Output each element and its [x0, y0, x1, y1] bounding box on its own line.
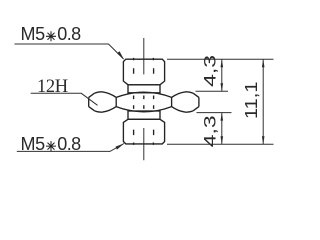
arrow dim down at 143.9 x221.8: [221, 136, 224, 144]
nut N2 bottom body: [123, 119, 164, 144]
arrow dim up at 59.2 x221.8: [221, 59, 224, 67]
hex chamfer arcs middle face: [116, 92, 171, 112]
arrow dim up at 59.2 x263.2: [262, 59, 265, 67]
hex thread ticks bottom: [134, 105, 154, 109]
arrow dim down at 91.3 x221.8: [221, 83, 224, 91]
leader L2 mid 12H: [31, 93, 98, 105]
extension line top: [167, 58, 274, 60]
svg-text:M5: M5: [21, 134, 46, 154]
hex face edge left: [115, 97, 117, 106]
svg-text:0.8: 0.8: [57, 134, 81, 154]
star top: [46, 31, 56, 41]
label M5*0.8 bottom: [21, 134, 82, 154]
svg-text:12H: 12H: [37, 77, 68, 97]
bottom face ticks N2: [134, 143, 154, 145]
arrow dim down at 143.9 x263.2: [262, 136, 265, 144]
star bottom: [46, 141, 56, 151]
extension line hex-bottom: [197, 112, 232, 114]
centerline: [143, 38, 145, 160]
hex thread ticks top: [134, 96, 154, 100]
washer W2 bottom: [128, 111, 160, 119]
svg-text:4,3: 4,3: [200, 55, 219, 87]
thread ticks nut N2: [134, 130, 154, 136]
hex end edge left: [89, 93, 95, 110]
leader L3 bottom M5: [17, 144, 124, 152]
label M5*0.8 top: [21, 24, 82, 44]
svg-text:M5: M5: [21, 24, 46, 44]
dimension line 4,3 upper: [221, 59, 223, 91]
leader L1 top M5: [15, 44, 124, 59]
hex end edge right: [193, 93, 199, 110]
arrow leader bottom: [116, 143, 125, 149]
dimension line 4,3 lower: [221, 113, 223, 145]
dimension line 11,1: [262, 59, 264, 144]
top face ticks N1: [134, 58, 154, 60]
nut N1 top body: [123, 59, 164, 85]
hex chamfer arcs left face: [94, 92, 116, 112]
svg-text:0.8: 0.8: [57, 24, 81, 44]
extension line hex-top: [196, 90, 229, 92]
washer W1 top: [128, 85, 160, 93]
hex chamfer arcs right face: [172, 92, 194, 112]
svg-text:4,3: 4,3: [200, 115, 219, 147]
extension line bottom: [167, 143, 274, 145]
thread ticks nut N1: [134, 68, 154, 74]
svg-text:11,1: 11,1: [241, 82, 261, 120]
hex face edge right: [171, 97, 173, 106]
arrow dim up at 112.6 x221.8: [221, 113, 224, 121]
arrow leader top: [117, 51, 124, 59]
